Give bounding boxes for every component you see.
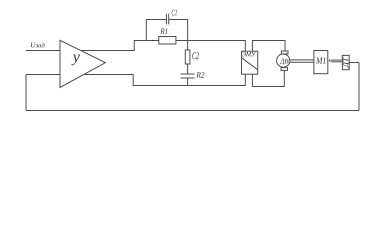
wire R2 to common rail [187,78,189,86]
label М1 [316,57,326,63]
wire EMU bottom right stub to motor bottom brush [252,70,284,86]
capacitor C1 [165,14,167,25]
label R1 [160,28,167,33]
label ЭМУ [242,52,256,56]
resistor R1 [159,37,176,45]
wire amplifier top output step up to R1 lead [81,41,159,51]
block feedback sensor [342,55,349,69]
wire amplifier bottom output common rail to EMU bottom left stub [84,74,246,85]
motor DV armature circle [277,54,290,67]
block EMU electromachine amplifier [242,51,258,74]
wire C1 right lead down to C2 [169,20,188,51]
shaft M1 to sensor double line [331,59,343,61]
label Uзад [31,42,45,47]
wire C2 to R2 [187,64,189,74]
wire right riser feedback [358,63,360,111]
label C2 [192,52,199,59]
label ДВ [280,59,289,65]
op-amp U amplifier triangle [60,40,105,87]
wire EMU top right stub over bus to motor top brush [252,41,285,52]
wire C1 left branch from bus [146,20,166,41]
block M1 reducer [314,51,328,74]
capacitor R2 [181,73,195,75]
label R2 [196,72,204,77]
wire bottom feedback rail [26,110,359,112]
EMU diagonal [242,58,258,70]
wire feedback into amplifier [26,74,60,76]
wire R1 right lead bus to EMU top left stub [176,41,245,52]
label C1 [172,10,177,16]
label ДТ sensor [343,57,350,68]
motor DV top brush [281,51,288,54]
wire left riser feedback [25,75,27,111]
wire sensor output to right riser [349,62,359,64]
motor DV bottom brush [281,68,288,71]
coupling arrowhead at M1 output shaft [329,59,331,62]
resistor C2 vertical box [185,50,190,64]
shaft motor to M1 double line [290,59,314,61]
wire input Uzad to amplifier [26,50,60,52]
label У amplifier [71,54,79,65]
